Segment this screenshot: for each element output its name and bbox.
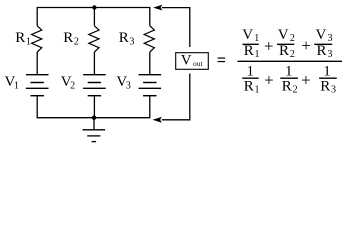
svg-text:1: 1 <box>285 64 293 80</box>
svg-text:+: + <box>264 70 274 89</box>
svg-text:1: 1 <box>247 64 255 80</box>
svg-text:+: + <box>301 70 311 89</box>
svg-text:+: + <box>264 36 274 55</box>
svg-text:1: 1 <box>323 64 331 80</box>
svg-text:+: + <box>301 36 311 55</box>
